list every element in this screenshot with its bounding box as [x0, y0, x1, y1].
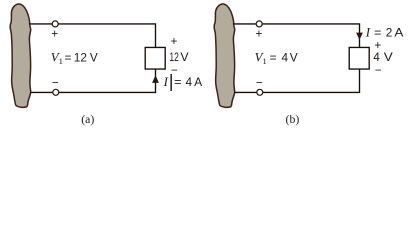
- svg-text:=: =: [174, 75, 182, 89]
- svg-text:+: +: [256, 27, 263, 41]
- svg-text:V: V: [384, 50, 393, 64]
- svg-text:1: 1: [59, 56, 63, 66]
- svg-text:12: 12: [74, 51, 87, 65]
- svg-text:−: −: [52, 75, 59, 89]
- svg-text:A: A: [194, 75, 202, 89]
- svg-text:1: 1: [263, 56, 267, 66]
- svg-text:=: =: [65, 51, 72, 65]
- svg-text:4: 4: [373, 50, 380, 64]
- svg-text:V: V: [180, 50, 188, 64]
- svg-text:I: I: [163, 75, 169, 89]
- svg-text:12: 12: [169, 50, 179, 64]
- svg-text:4: 4: [282, 51, 289, 65]
- svg-text:=: =: [270, 51, 277, 65]
- svg-text:−: −: [256, 75, 263, 89]
- svg-text:(b): (b): [286, 112, 300, 126]
- svg-text:+: +: [51, 27, 58, 41]
- svg-text:+: +: [171, 34, 178, 48]
- svg-text:V: V: [90, 51, 98, 65]
- svg-text:4: 4: [186, 75, 193, 89]
- svg-text:I: I: [365, 26, 371, 40]
- svg-text:−: −: [375, 63, 382, 77]
- svg-text:2: 2: [386, 26, 393, 40]
- svg-text:(a): (a): [81, 112, 94, 126]
- svg-text:V: V: [290, 51, 298, 65]
- svg-text:A: A: [394, 26, 403, 40]
